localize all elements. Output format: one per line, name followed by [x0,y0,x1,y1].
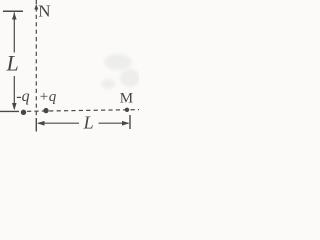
dimension line L horizontal (left segment) [38,122,79,124]
svg-text:-q: -q [16,88,29,105]
charge +q dot [43,108,48,113]
wire: horizontal dashed line from -q through +q to M [27,110,139,112]
arrowhead right (horizontal dimension) [122,121,129,126]
point M dot [125,108,129,112]
svg-text:L: L [6,51,19,76]
arrowhead left (horizontal dimension) [37,121,45,126]
charge -q dot [21,110,26,115]
svg-text:L: L [83,113,94,133]
faint scan mottle right side [101,54,140,89]
tick at right end of horizontal dimension [129,115,131,129]
dimension line L horizontal (right segment) [99,122,129,124]
arrowhead up (vertical dimension) [12,13,17,20]
svg-text:N: N [38,1,50,20]
arrowhead at top of N line [34,4,38,10]
wire: vertical dashed line from dipole midpoint up to N [35,0,37,118]
tick at left end of horizontal dimension [35,118,37,132]
svg-text:M: M [120,91,133,107]
svg-text:+q: +q [39,89,57,105]
bottom reference line at charges level [0,110,19,112]
dimension line L vertical (lower segment) [13,76,15,109]
top reference cap line [3,10,23,12]
paper background [0,0,139,147]
arrowhead down (vertical dimension) [12,103,17,110]
dimension line L vertical (upper segment) [13,13,15,53]
